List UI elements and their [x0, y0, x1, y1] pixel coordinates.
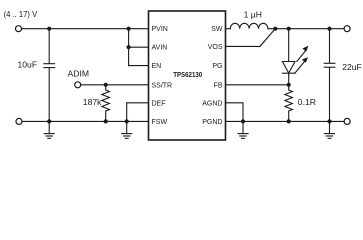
svg-text:AVIN: AVIN — [152, 45, 168, 52]
svg-text:ADIM: ADIM — [68, 69, 89, 79]
wire ADIM to SS/TR — [81, 84, 149, 86]
node junction C1 top — [47, 27, 51, 31]
node junction AGND/PGND — [241, 119, 245, 123]
node junction R1 bottom — [104, 119, 108, 123]
svg-text:0.1R: 0.1R — [298, 97, 316, 107]
wire FB to LED cathode — [226, 84, 289, 86]
op-amp U1 TPS62130 body — [149, 11, 226, 140]
node junction C1 bottom — [47, 119, 51, 123]
wire PGND rail to output return — [226, 120, 345, 122]
capacitor C2 22uF — [324, 29, 362, 122]
wire input rail to PVIN — [22, 28, 149, 30]
wire to AVIN — [129, 46, 149, 48]
wire VOS sense — [226, 29, 276, 47]
svg-text:PG: PG — [212, 63, 222, 70]
wire bottom-left rail to FSW — [22, 120, 148, 122]
svg-text:SS/TR: SS/TR — [152, 82, 173, 89]
node junction LED top — [287, 27, 291, 31]
output terminal — [344, 26, 350, 32]
LED arrow 1 — [295, 60, 306, 73]
node junction C2 bottom — [327, 119, 331, 123]
resistor R2 0.1R — [285, 85, 316, 122]
wire inductor to output terminal — [268, 28, 344, 30]
ground terminal left — [16, 118, 22, 124]
ground terminal right — [344, 118, 350, 124]
node junction PVIN/AVIN/EN — [127, 27, 149, 66]
svg-text:DEF: DEF — [152, 100, 166, 107]
svg-text:187k: 187k — [83, 97, 102, 107]
svg-text:TPS62130: TPS62130 — [173, 70, 202, 79]
svg-text:SW: SW — [211, 26, 223, 33]
capacitor C1 10uF — [18, 29, 55, 122]
svg-text:EN: EN — [152, 63, 162, 70]
ground symbol left2 — [122, 121, 132, 138]
svg-text:AGND: AGND — [202, 100, 222, 107]
svg-text:10uF: 10uF — [18, 60, 38, 70]
node junction FB/LED/R2 — [287, 83, 291, 87]
wire AGND to ground rail — [226, 103, 244, 122]
svg-text:FB: FB — [214, 82, 223, 89]
svg-text:VOS: VOS — [208, 44, 223, 51]
node junction R1 top — [104, 83, 108, 87]
svg-text:(4 .. 17) V: (4 .. 17) V — [4, 9, 38, 19]
svg-text:PGND: PGND — [202, 119, 222, 126]
svg-text:FSW: FSW — [152, 119, 168, 126]
node junction L1/VOS — [273, 27, 277, 31]
wire to EN — [129, 65, 149, 67]
node junction DEF/ground — [125, 119, 129, 123]
node ADIM terminal — [68, 69, 89, 88]
inductor L1 1uH — [230, 10, 268, 29]
svg-text:1 µH: 1 µH — [244, 10, 262, 20]
ground symbol right1 — [238, 121, 248, 138]
resistor R1 187k — [83, 85, 110, 122]
diode D1 LED — [282, 29, 308, 85]
ground symbol right2 — [325, 121, 335, 138]
wire DEF to ground rail — [127, 103, 149, 122]
wire SW to inductor — [226, 28, 231, 30]
node junction R2 bottom — [287, 119, 291, 123]
LED arrow 2 — [297, 51, 306, 62]
svg-text:22uF: 22uF — [342, 62, 362, 72]
ground symbol left1 — [44, 121, 54, 138]
input terminal — [16, 26, 22, 32]
svg-text:PVIN: PVIN — [152, 26, 168, 33]
node junction C2 top — [327, 27, 331, 31]
